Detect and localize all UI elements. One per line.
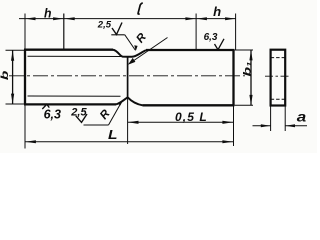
- a dim left segment: [253, 125, 271, 127]
- label R top rotated: [134, 31, 149, 46]
- shelf line under bottom check: [84, 124, 109, 126]
- svg-text:b: b: [0, 71, 11, 81]
- svg-text:R: R: [98, 107, 113, 122]
- specimen top edge left half: [24, 49, 113, 51]
- leader from shelf to dip: [125, 35, 135, 50]
- svg-text:6,3: 6,3: [44, 107, 61, 121]
- ext: head boundary left: [63, 14, 65, 50]
- svg-text:0,5 L: 0,5 L: [175, 110, 208, 124]
- side ext left down: [270, 106, 272, 132]
- long diagonal leader onto weld line: [130, 38, 168, 64]
- specimen left edge: [24, 50, 26, 105]
- ext: bar left corner up: [24, 14, 26, 50]
- ext: right head end: [235, 14, 237, 50]
- right ext below bar: [233, 105, 235, 146]
- weld centre extension below bar: [127, 97, 129, 144]
- a dim right segment: [285, 125, 307, 127]
- label l (drawn): [138, 3, 143, 14]
- inner thin line upper left half: [28, 55, 123, 57]
- arrow l right: [185, 17, 195, 20]
- specimen bottom edge right half: [143, 104, 235, 106]
- svg-text:b₁: b₁: [241, 61, 253, 76]
- arrow h-left at right ext: [53, 17, 63, 20]
- arrow onto bump surface: [117, 100, 123, 105]
- inner thin line lower left half: [28, 95, 121, 97]
- left ext below bar: [24, 104, 26, 148]
- b ext top: [6, 49, 25, 51]
- roughness check top: [112, 23, 122, 35]
- specimen bottom edge left half: [24, 103, 116, 105]
- svg-text:2,5: 2,5: [97, 20, 112, 31]
- svg-text:L: L: [108, 127, 118, 142]
- side view hidden line top: [271, 57, 286, 59]
- weld seam line: [127, 57, 129, 98]
- 0.5L dimension line: [128, 121, 234, 123]
- side ext right down: [284, 106, 286, 132]
- arrowhead on weld line: [128, 58, 135, 65]
- leader from shelf to bump: [109, 102, 122, 125]
- b dimension line: [12, 50, 14, 104]
- roughness check bottom left: [42, 104, 49, 109]
- arrow h-left at left ext: [25, 17, 35, 20]
- a dim left arrow: [261, 124, 271, 127]
- b1 ext top: [235, 49, 254, 51]
- roughness check top right: [215, 39, 225, 50]
- label R bottom rotated: [98, 107, 113, 122]
- specimen top edge right half: [146, 49, 234, 51]
- side view rectangle: [271, 50, 286, 106]
- label b rotated: [0, 71, 11, 81]
- arrow L left: [25, 140, 36, 143]
- L dimension line: [25, 141, 233, 143]
- arrow L right: [222, 140, 233, 143]
- b1 arrow up: [249, 50, 252, 60]
- arrow 0.5L left: [128, 121, 139, 124]
- ext: gauge/head boundary right: [195, 14, 197, 50]
- arrow h-right at left ext: [197, 17, 207, 20]
- centerline of front view: [9, 75, 245, 77]
- top dimension line: [19, 18, 236, 20]
- b arrow up: [11, 50, 14, 60]
- svg-text:h: h: [44, 7, 52, 21]
- b1 ext bottom: [235, 104, 254, 106]
- specimen right edge: [232, 50, 234, 105]
- b1 arrow down: [249, 95, 252, 105]
- roughness check bottom: [76, 114, 87, 122]
- svg-text:6,3: 6,3: [204, 32, 218, 43]
- top fillet dip at weld zone: [113, 50, 146, 57]
- b arrow down: [11, 94, 14, 104]
- shelf line under check: [111, 34, 125, 36]
- label b1 rotated: [241, 61, 253, 76]
- arrow onto dip surface: [134, 45, 137, 51]
- arrow l left: [64, 17, 74, 20]
- bottom fillet bump at weld zone: [116, 97, 143, 105]
- svg-text:a: a: [297, 108, 307, 124]
- a dim right arrow: [285, 124, 295, 127]
- b ext bottom: [6, 103, 25, 105]
- arrow 0.5L right: [222, 121, 233, 124]
- side view centerline: [265, 75, 291, 77]
- svg-text:h: h: [213, 5, 221, 19]
- b1 dimension line: [250, 50, 252, 105]
- side view hidden line bottom: [271, 98, 286, 100]
- arrow h-right at right ext: [225, 17, 235, 20]
- svg-text:R: R: [134, 31, 149, 46]
